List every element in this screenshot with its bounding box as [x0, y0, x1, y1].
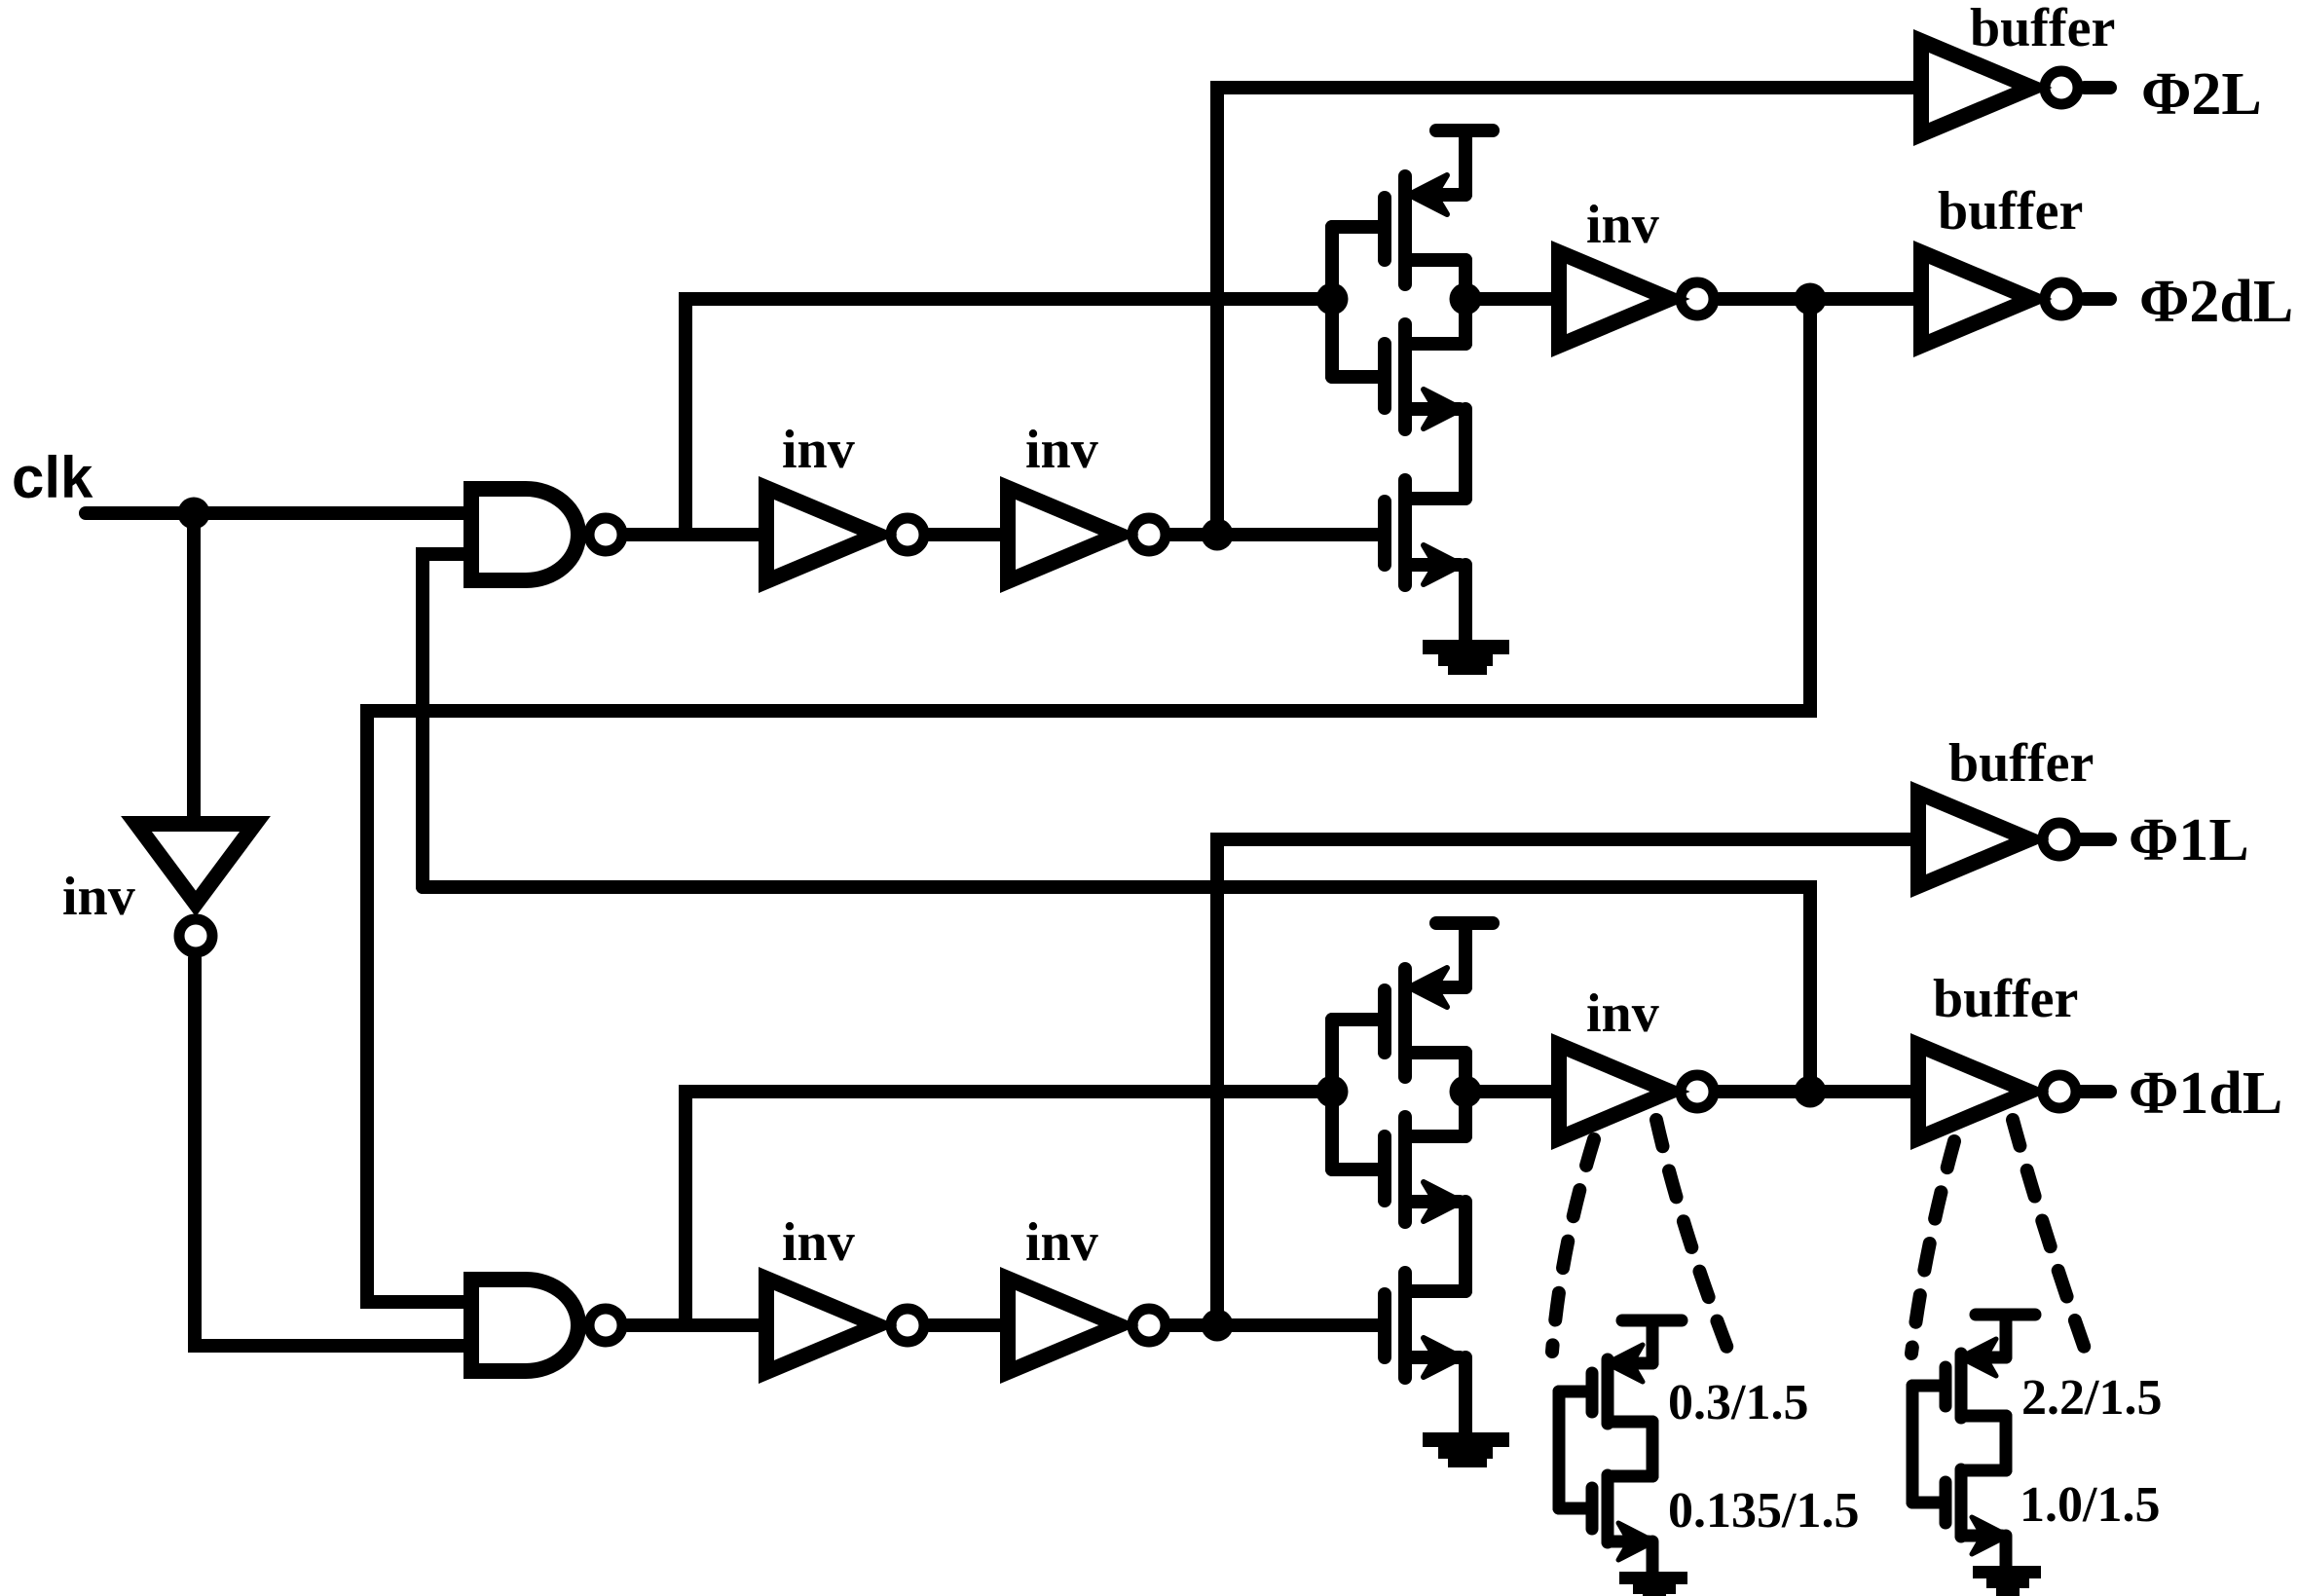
buffer phi2dL [1921, 252, 2078, 346]
wire NAND1 output to inv1 [628, 528, 766, 541]
svg-text:clk: clk [12, 445, 93, 510]
transistor T3 top latch [1385, 480, 1465, 643]
wire NAND2 output to inv1b [628, 1318, 766, 1332]
transistor T1 top latch [1332, 130, 1493, 344]
svg-text:Φ1dL: Φ1dL [2129, 1060, 2282, 1127]
ground bottom latch [1423, 1432, 1509, 1467]
svg-text:inv: inv [1025, 420, 1098, 480]
node phi1dL [1795, 1076, 1827, 1108]
reference transistor pair 2 (buffer sizes) [1912, 1315, 2035, 1569]
inverter inv1b bottom chain [766, 1279, 924, 1372]
NAND gate top [471, 489, 622, 580]
inverter phi1d [1559, 1045, 1714, 1138]
transistor T2 top latch [1332, 324, 1465, 499]
svg-text:inv: inv [782, 1212, 855, 1273]
wire clk inverter output to NAND2 [195, 958, 467, 1346]
svg-text:buffer: buffer [1970, 0, 2115, 58]
node junction rail phi1L [1202, 1310, 1234, 1342]
wire inv1b to inv2b [930, 1318, 1008, 1332]
svg-text:1.0/1.5: 1.0/1.5 [2020, 1477, 2160, 1533]
transistor T3b bottom latch [1385, 1273, 1465, 1435]
wire inv2 to T3 gate [1171, 528, 1378, 541]
wire clk input [86, 506, 467, 520]
svg-text:Φ2L: Φ2L [2141, 61, 2262, 128]
wire latch output to inv (phi2d) [1465, 292, 1559, 306]
svg-text:inv: inv [1025, 1212, 1098, 1273]
wire rail up to phi2L buffer [1217, 88, 1921, 535]
buffer phi2L [1921, 41, 2078, 134]
wire NAND1 lower input from line B [423, 554, 467, 887]
reference transistor pair 1 (inv sizes) [1559, 1320, 1682, 1575]
wire latch1 gate rail [1325, 227, 1339, 377]
inverter phi2d [1559, 252, 1714, 346]
transistor T1b bottom latch [1332, 923, 1493, 1136]
wire inv1 to inv2 [930, 528, 1008, 541]
svg-text:2.2/1.5: 2.2/1.5 [2021, 1370, 2162, 1426]
wire NAND1 output up to latch row [686, 299, 1332, 535]
wire phi1dL output stub [2082, 1085, 2110, 1098]
wire clk junction down to inverter [187, 513, 201, 816]
svg-text:buffer: buffer [1938, 181, 2083, 241]
svg-text:0.3/1.5: 0.3/1.5 [1668, 1375, 1808, 1430]
wire inv2b to T3b gate [1171, 1318, 1378, 1332]
node latch2 output [1450, 1076, 1482, 1108]
node junction rail phi2L [1202, 519, 1234, 551]
svg-text:0.135/1.5: 0.135/1.5 [1668, 1483, 1859, 1539]
ground top latch [1423, 640, 1509, 675]
wire NAND2 output up to latch row 2 [686, 1092, 1332, 1325]
inverter inv1 top chain [766, 488, 924, 581]
node phi2dL [1795, 283, 1827, 315]
wire line A feedback (phi2dL node to NAND2) [367, 299, 1810, 1302]
inverter inv2b bottom chain [1008, 1279, 1166, 1372]
svg-text:inv: inv [1586, 195, 1659, 255]
node latch1 input [1316, 283, 1349, 315]
wire phi2dL output stub [2085, 292, 2110, 306]
inverter inv2 top chain [1008, 488, 1166, 581]
NAND gate bottom [471, 1280, 622, 1371]
buffer phi1dL [1918, 1045, 2076, 1138]
wire inv to buffer (phi1dL) [1720, 1085, 1918, 1098]
inverter clk (pointing down) [136, 824, 255, 952]
svg-text:inv: inv [1586, 984, 1659, 1044]
node latch1 output [1450, 283, 1482, 315]
svg-text:inv: inv [782, 420, 855, 480]
wire latch2 output to inv (phi1d) [1465, 1085, 1559, 1098]
wire rail up to phi1L buffer [1217, 839, 1918, 1325]
svg-text:buffer: buffer [1948, 733, 2094, 794]
wire line B feedback (phi1dL node to NAND1) [423, 887, 1810, 1092]
node clk junction [178, 498, 210, 530]
buffer phi1L [1918, 793, 2076, 886]
ground reference pair 1 [1619, 1572, 1687, 1596]
ground reference pair 2 [1973, 1566, 2041, 1596]
transistor T2b bottom latch [1332, 1117, 1465, 1291]
dashed leader buffer to reference transistor [1911, 1120, 2085, 1354]
svg-text:inv: inv [62, 867, 135, 927]
dashed leader inv to reference transistor [1552, 1120, 1729, 1354]
wire inv to buffer (phi2dL) [1720, 292, 1921, 306]
wire phi2L output stub [2085, 81, 2110, 94]
node latch2 input [1316, 1076, 1349, 1108]
wire latch2 gate rail [1325, 1020, 1339, 1169]
wire phi1L output stub [2082, 833, 2110, 846]
svg-text:buffer: buffer [1933, 969, 2078, 1029]
svg-text:Φ1L: Φ1L [2129, 807, 2249, 873]
svg-text:Φ2dL: Φ2dL [2139, 269, 2293, 335]
